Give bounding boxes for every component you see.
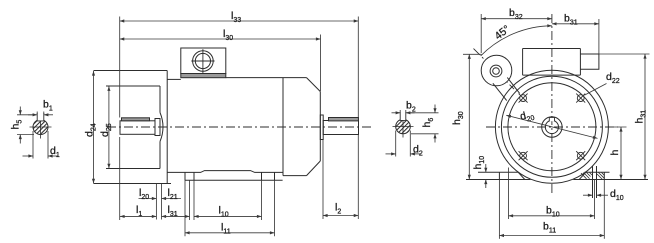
rear bottom chamfer xyxy=(307,161,321,176)
dim b2 arrows outside xyxy=(392,112,401,114)
foot hole wall left xyxy=(592,166,594,198)
section centerline vertical xyxy=(402,121,404,138)
terminal box xyxy=(181,48,226,74)
section centerline vertical xyxy=(40,121,42,139)
ext h6 top xyxy=(407,112,439,114)
ground line right segment xyxy=(573,179,648,181)
bolt hole bottom-right xyxy=(576,151,585,160)
key on right shaft xyxy=(329,118,359,121)
shaft section circle hatched xyxy=(396,119,411,134)
ext b10 right down xyxy=(594,180,596,219)
ext line body rear face up xyxy=(320,35,322,92)
ext h6 bottom xyxy=(411,133,439,135)
terminal box left side xyxy=(522,49,524,76)
ext left foot inner down xyxy=(193,180,195,220)
right foot outer edge xyxy=(603,172,605,179)
eye bolt shank upper edge xyxy=(507,78,519,94)
ext b11 left down xyxy=(498,180,500,239)
shaft boss circle xyxy=(542,117,562,137)
dim h6 xyxy=(434,105,436,113)
left foot top xyxy=(478,171,518,173)
ext eyebolt left up xyxy=(480,14,482,53)
dim l11 xyxy=(185,232,275,234)
flange circle xyxy=(501,76,602,177)
ext h5 top xyxy=(17,114,35,116)
d22 leader line xyxy=(584,84,606,96)
bolt hole top-left xyxy=(519,94,528,103)
terminal box base bar xyxy=(181,74,226,78)
shaft circle xyxy=(545,120,558,133)
dim b31 xyxy=(552,23,599,25)
ext b10 left down xyxy=(508,168,510,220)
ext right shaft tip down xyxy=(357,135,359,219)
cable gland outer circle xyxy=(193,51,214,72)
dim d1 arrows outside xyxy=(23,155,34,157)
keyway slot xyxy=(37,113,44,121)
ext b2 xyxy=(399,110,401,113)
d25 top extension / spigot top xyxy=(106,85,160,87)
horizontal centerline xyxy=(486,126,618,128)
ext b1 xyxy=(36,112,38,115)
ext left foot outer down xyxy=(184,180,186,236)
bolt hole top-right xyxy=(576,94,585,103)
centerline main shaft axis xyxy=(107,126,372,128)
ext rear shoulder down xyxy=(322,140,324,219)
ext line right shaft tip vertical xyxy=(357,17,359,121)
ext h top (shaft height) xyxy=(610,126,627,128)
l21 pointer line xyxy=(162,198,182,200)
gland cross horizontal xyxy=(191,60,214,62)
key on left shaft xyxy=(122,118,150,121)
ext h5 bottom xyxy=(17,134,34,136)
cable gland box xyxy=(580,54,599,69)
left foot inner chamfer xyxy=(518,172,525,179)
spigot circle d20 xyxy=(508,83,596,171)
dim l31 xyxy=(162,215,190,217)
eye bolt ring xyxy=(481,55,512,86)
dim h xyxy=(620,127,622,179)
foot hole wall right xyxy=(596,166,598,198)
terminal box top xyxy=(523,48,581,50)
ext gland right up xyxy=(598,19,600,54)
body top line left of box xyxy=(167,78,181,80)
terminal box bottom chord xyxy=(523,74,581,76)
rear shield bottom xyxy=(283,175,307,177)
rear shield top chamfer xyxy=(307,78,321,92)
shield top edge / d24 extension xyxy=(94,70,168,72)
45 degree arc xyxy=(481,26,552,56)
dim l1 xyxy=(120,215,156,217)
ext shield face B down xyxy=(161,184,163,220)
left foot outer edge xyxy=(498,172,500,179)
eye bolt hole outer xyxy=(490,65,502,77)
gland cross vertical xyxy=(202,49,204,73)
ext d2 sides xyxy=(395,131,397,157)
ground line left segment xyxy=(466,179,531,181)
dim l2 xyxy=(323,215,358,217)
ext d1 sides xyxy=(32,131,34,159)
spigot face lower xyxy=(159,142,161,169)
dim h5 outside arrows xyxy=(19,107,21,115)
d20 diameter dimension line xyxy=(506,115,597,138)
end shield front face xyxy=(166,71,168,184)
dim d25 xyxy=(108,86,110,168)
spigot face upper xyxy=(159,86,161,113)
bolt hole bottom-left xyxy=(519,151,528,160)
right shaft end xyxy=(323,121,358,135)
bearing hub bulge xyxy=(160,113,163,142)
dim d2 arrows outside xyxy=(386,153,396,155)
shaft shoulder left xyxy=(155,119,160,136)
rear face xyxy=(319,92,321,162)
dim d10 arrows outside xyxy=(583,194,593,196)
dim h10 arrows outside xyxy=(485,164,487,172)
dim d24 xyxy=(93,71,95,183)
right foot hatched section xyxy=(581,173,604,180)
vertical centerline xyxy=(551,14,553,196)
body bottom profile with raised middle xyxy=(167,171,283,173)
outer housing circle xyxy=(495,70,608,183)
shield bottom edge / d24 extension xyxy=(94,183,172,185)
ext line left shaft tip vertical xyxy=(119,17,121,118)
right foot inner chamfer xyxy=(579,172,586,179)
right foot top xyxy=(585,171,610,173)
eye bolt shank lower edge xyxy=(493,83,507,100)
45 deg axis line xyxy=(474,49,515,90)
dim h31 xyxy=(644,54,646,179)
dim l30 xyxy=(120,38,321,40)
shaft section circle hatched xyxy=(33,120,48,135)
ext b11 right down xyxy=(603,180,605,239)
ext shaft shoulder A down xyxy=(155,184,157,220)
terminal box right side xyxy=(579,49,581,76)
left shaft end xyxy=(120,121,155,135)
keyway slot xyxy=(400,112,406,120)
ext right foot outer down xyxy=(274,180,276,236)
dim b10 xyxy=(509,215,595,217)
ext right foot inner down xyxy=(261,180,263,220)
ext h31 top xyxy=(599,53,650,55)
right foot xyxy=(262,172,275,180)
eye bolt hole inner xyxy=(493,68,500,75)
dim b32 xyxy=(481,18,552,20)
left foot xyxy=(185,172,194,180)
dim h30 xyxy=(468,54,470,179)
ext h30 top xyxy=(463,53,482,55)
cable gland inner circle xyxy=(195,53,210,68)
keyway slot in shaft xyxy=(549,117,554,121)
body top line xyxy=(226,77,307,79)
ext left foot axis down xyxy=(189,180,191,220)
dim b1 arrows outside xyxy=(28,114,37,116)
dim l33 xyxy=(120,20,359,22)
rear shaft shoulder xyxy=(320,115,323,140)
l20 pointer line xyxy=(139,198,157,200)
d25 bottom extension / spigot bottom xyxy=(106,168,160,170)
dim l10 xyxy=(194,215,262,217)
section centerline horizontal xyxy=(30,126,52,128)
rear joint line xyxy=(282,78,284,176)
svg-text:h: h xyxy=(609,150,621,156)
ground line under feet xyxy=(185,179,283,181)
ext left shaft tip down xyxy=(119,137,121,220)
dim b11 xyxy=(499,235,604,237)
section centerline horizontal xyxy=(393,126,414,128)
